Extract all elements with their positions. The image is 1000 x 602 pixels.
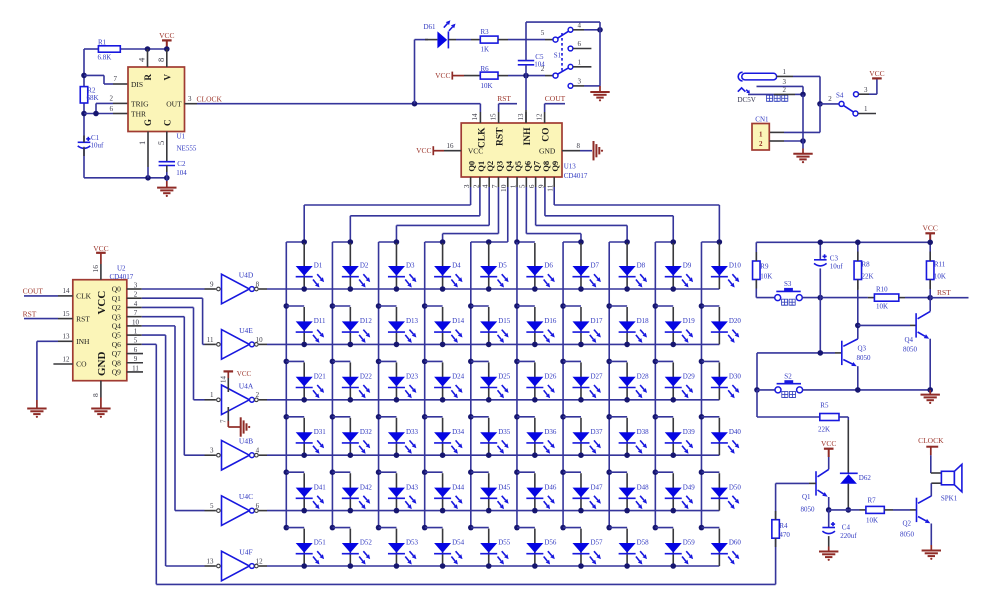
LED D45 — [488, 473, 490, 510]
svg-text:D42: D42 — [360, 483, 373, 491]
inverter U4A — [222, 385, 250, 415]
svg-text:INH: INH — [76, 337, 90, 346]
svg-text:D5: D5 — [498, 262, 507, 270]
svg-text:R11: R11 — [934, 260, 946, 268]
svg-text:D26: D26 — [544, 373, 557, 381]
column 3 bus — [378, 242, 380, 528]
svg-text:D51: D51 — [314, 539, 327, 547]
U2 pin13 INH wire to ground — [58, 340, 73, 342]
LED D38 — [626, 418, 628, 455]
node RST junction — [927, 295, 933, 301]
svg-text:9: 9 — [210, 280, 214, 288]
svg-text:S3: S3 — [784, 280, 792, 288]
LED D54 — [442, 529, 444, 566]
LED D57 — [580, 529, 582, 566]
svg-text:D60: D60 — [729, 539, 742, 547]
svg-text:U2: U2 — [117, 264, 126, 272]
svg-text:S1: S1 — [554, 52, 562, 60]
wire U13 Q8 to column 9 — [544, 187, 546, 216]
LED D34 — [442, 418, 444, 455]
svg-text:U4B: U4B — [239, 437, 253, 446]
wire S3 to C3 node — [802, 297, 820, 299]
svg-text:CO: CO — [542, 128, 552, 142]
svg-text:D43: D43 — [406, 483, 419, 491]
jack pin 3 wire — [757, 85, 804, 87]
LED D24 — [442, 362, 444, 399]
svg-text:TRIG: TRIG — [131, 99, 149, 108]
svg-text:16: 16 — [447, 142, 455, 150]
svg-text:8: 8 — [156, 58, 166, 62]
column 2 bracket top — [332, 241, 350, 243]
svg-text:S4: S4 — [836, 92, 844, 100]
svg-text:D6: D6 — [544, 262, 553, 270]
LED D35 — [488, 418, 490, 455]
svg-text:1: 1 — [783, 68, 787, 76]
LED D53 — [395, 529, 397, 566]
svg-text:VCC: VCC — [159, 31, 174, 40]
svg-text:D32: D32 — [360, 428, 373, 436]
svg-text:G: G — [143, 119, 153, 126]
column 8 bus — [608, 242, 610, 528]
svg-text:D41: D41 — [314, 483, 327, 491]
U4A ground pin 7 — [227, 407, 229, 421]
node pin1 junction — [145, 175, 151, 181]
svg-text:D2: D2 — [360, 262, 369, 270]
svg-text:VCC: VCC — [821, 439, 836, 448]
row 4 wire — [267, 454, 719, 456]
node D62 junction — [846, 507, 852, 513]
LED D19 — [672, 307, 674, 344]
wire S1 top bus — [526, 21, 600, 23]
svg-text:2: 2 — [759, 140, 763, 148]
inverter U4C — [222, 496, 250, 526]
transistor Q3 8050 — [757, 352, 835, 354]
pin 5 stub — [166, 132, 168, 162]
svg-text:5: 5 — [134, 337, 138, 345]
row 2 wire — [267, 343, 719, 345]
inverter U4F — [222, 551, 250, 581]
resistor R8 — [857, 242, 859, 261]
node S3/C3 junction — [818, 295, 824, 301]
svg-text:10K: 10K — [866, 517, 878, 525]
svg-text:D61: D61 — [424, 23, 437, 31]
svg-text:D15: D15 — [498, 317, 511, 325]
node pin5/C2 junction — [164, 175, 170, 181]
column 4 bus — [424, 242, 426, 528]
svg-text:D34: D34 — [452, 428, 465, 436]
svg-text:D28: D28 — [637, 373, 650, 381]
svg-text:C3: C3 — [830, 254, 839, 262]
LED D51 — [303, 529, 305, 566]
svg-text:D7: D7 — [590, 262, 599, 270]
svg-text:SPK1: SPK1 — [941, 494, 958, 502]
svg-text:8: 8 — [577, 142, 581, 150]
svg-text:D16: D16 — [544, 317, 557, 325]
node column 5 top — [486, 239, 492, 245]
net label RST (right) — [930, 297, 968, 299]
LED D27 — [580, 362, 582, 399]
wire C3 node down to Q3 base — [819, 298, 821, 353]
resistor R1 — [84, 48, 98, 50]
column 1 bracket top — [286, 241, 304, 243]
LED D46 — [534, 473, 536, 510]
svg-text:13: 13 — [517, 113, 525, 121]
column 9 bus — [654, 242, 656, 528]
svg-text:R1: R1 — [98, 39, 107, 47]
LED D26 — [534, 362, 536, 399]
svg-text:COUT: COUT — [545, 94, 566, 103]
transistor Q2 8050 — [916, 498, 918, 522]
svg-text:2: 2 — [541, 65, 545, 73]
wire left rail x=84 — [83, 49, 85, 142]
svg-text:10K: 10K — [760, 272, 772, 280]
node S2 left junction — [754, 387, 760, 393]
svg-text:VCC: VCC — [416, 146, 431, 155]
U4A power pin 14 VCC — [227, 378, 229, 392]
svg-text:D49: D49 — [683, 483, 696, 491]
LED D6 — [534, 243, 536, 289]
pin 4 stub — [147, 49, 149, 67]
svg-text:22K: 22K — [818, 426, 830, 434]
svg-text:R7: R7 — [868, 496, 877, 504]
svg-text:1: 1 — [210, 391, 214, 399]
svg-text:CLK: CLK — [478, 127, 488, 148]
svg-text:7: 7 — [219, 419, 227, 423]
node Q1 emitter junction — [826, 507, 832, 513]
svg-text:10: 10 — [256, 336, 264, 344]
ground (U2 pin8) — [91, 408, 110, 410]
svg-text:D48: D48 — [637, 483, 650, 491]
svg-text:1: 1 — [578, 58, 582, 66]
svg-text:15: 15 — [63, 310, 71, 318]
capacitor C5 — [518, 60, 534, 62]
LED D11 — [303, 307, 305, 344]
LED D8 — [626, 243, 628, 289]
node Q3 collector junction — [855, 323, 861, 329]
svg-text:R8: R8 — [862, 260, 871, 268]
svg-text:3: 3 — [210, 447, 214, 455]
svg-text:D25: D25 — [498, 373, 511, 381]
LED D13 — [395, 307, 397, 344]
wire Q3 collector to Q4 base — [858, 324, 910, 326]
svg-text:D21: D21 — [314, 373, 327, 381]
wire R4 to bottom net — [775, 538, 777, 584]
ground (U13 pin8, rotated) — [593, 141, 595, 160]
svg-text:1: 1 — [759, 131, 763, 139]
svg-text:1: 1 — [137, 141, 147, 145]
svg-text:D1: D1 — [314, 262, 323, 270]
wire Q5 to U4F — [142, 334, 166, 336]
CN1 pin2 wire — [769, 140, 784, 142]
LED D44 — [442, 473, 444, 510]
svg-text:RST: RST — [496, 127, 506, 146]
svg-text:DC5V: DC5V — [738, 96, 756, 104]
ground (U2 INH) — [27, 408, 46, 410]
LED D15 — [488, 307, 490, 344]
svg-text:9: 9 — [536, 184, 545, 188]
svg-text:Q4: Q4 — [112, 321, 121, 330]
svg-text:D31: D31 — [314, 428, 327, 436]
svg-text:4: 4 — [137, 57, 147, 62]
svg-text:Q9: Q9 — [112, 368, 121, 377]
wire CLOCK to speaker top — [930, 455, 932, 473]
svg-text:D11: D11 — [314, 317, 326, 325]
pushbutton S3 — [756, 297, 774, 299]
inverter U4E — [222, 330, 250, 360]
svg-text:Q4: Q4 — [905, 336, 914, 344]
counter U2 CD4017 — [73, 280, 127, 381]
U2 pin12 CO stub — [53, 363, 72, 365]
wire VCC top bus (right) — [756, 241, 930, 243]
svg-text:6: 6 — [110, 105, 114, 113]
svg-text:4: 4 — [481, 184, 490, 188]
svg-text:104: 104 — [176, 169, 187, 177]
svg-text:D57: D57 — [590, 539, 603, 547]
wire Q0 to U4D — [142, 288, 205, 290]
svg-text:D45: D45 — [498, 483, 511, 491]
svg-text:D30: D30 — [729, 373, 742, 381]
LED D52 — [349, 529, 351, 566]
diode D62 — [840, 472, 858, 474]
capacitor C2 — [159, 161, 175, 163]
jack pin 1 wire — [777, 75, 793, 77]
column 7 bus — [562, 242, 564, 528]
label power-jack (CJK) — [767, 95, 773, 101]
column 1 bus — [285, 242, 287, 528]
resistor R10 — [868, 297, 875, 299]
svg-text:14: 14 — [471, 113, 479, 121]
inverter U4D — [222, 274, 250, 304]
resistor R5 — [757, 416, 820, 418]
wire Q2 collector to speaker — [930, 483, 932, 496]
svg-text:Q6: Q6 — [112, 340, 121, 349]
ground (CN1) — [793, 153, 812, 155]
svg-text:8050: 8050 — [903, 345, 918, 353]
svg-text:U1: U1 — [177, 133, 186, 141]
node Q3 base junction — [818, 350, 824, 356]
wire Q6 to bottom net — [142, 343, 157, 345]
svg-text:5: 5 — [210, 502, 214, 510]
svg-text:RST: RST — [497, 94, 511, 103]
svg-text:S2: S2 — [784, 372, 792, 380]
svg-text:CLK: CLK — [76, 292, 92, 301]
svg-text:VCC: VCC — [922, 224, 937, 233]
wire Q3 base left rail — [756, 353, 758, 390]
svg-text:10uf: 10uf — [830, 263, 844, 271]
wire U13 Q2 to column 3 — [488, 187, 490, 225]
svg-text:D37: D37 — [590, 428, 603, 436]
LED D55 — [488, 529, 490, 566]
wire D62 to Q1 emitter node — [847, 484, 849, 510]
node VCC bus / R8 junction — [855, 240, 861, 246]
svg-text:U4F: U4F — [239, 548, 252, 557]
LED D43 — [395, 473, 397, 510]
svg-text:3: 3 — [462, 184, 471, 188]
LED D32 — [349, 418, 351, 455]
pin 1 stub — [147, 132, 149, 168]
svg-text:6: 6 — [134, 346, 138, 354]
svg-text:RST: RST — [76, 314, 90, 323]
ground (Q4) — [929, 390, 931, 395]
node column 9 top — [670, 239, 676, 245]
wire U13 Q3 to column 4 — [497, 187, 499, 234]
inverter U4B — [222, 440, 250, 470]
LED D28 — [626, 362, 628, 399]
wire U13 Q4 to column 5 — [507, 187, 509, 242]
svg-text:11: 11 — [207, 336, 214, 344]
wire R3 to S1 pin5 — [498, 39, 508, 41]
pin 2 TRIG stub and jog — [113, 102, 128, 104]
svg-text:10: 10 — [499, 184, 508, 192]
U13 pin14 CLK stub — [479, 112, 481, 123]
counter U13 CD4017 — [461, 123, 562, 177]
svg-text:D40: D40 — [729, 428, 742, 436]
node D61 branch junction — [412, 101, 418, 107]
U13 pin15 RST stub and net label RST — [498, 112, 500, 123]
column 3 bracket top — [379, 241, 397, 243]
wire Q1 to U4E — [142, 297, 203, 299]
svg-text:2: 2 — [471, 184, 480, 188]
wire S2 rail down to R5 — [756, 390, 758, 417]
svg-text:R6: R6 — [481, 65, 490, 73]
svg-text:3: 3 — [578, 78, 582, 86]
svg-text:68K: 68K — [87, 94, 99, 102]
svg-text:R5: R5 — [820, 401, 829, 409]
pin 7 DIS stub — [113, 83, 128, 85]
svg-text:C: C — [162, 120, 172, 127]
svg-text:D53: D53 — [406, 539, 419, 547]
LED D42 — [349, 473, 351, 510]
S4 pin 3 wire to VCC — [859, 93, 870, 95]
svg-text:D9: D9 — [683, 262, 692, 270]
wire Q1 base — [776, 482, 809, 484]
svg-text:U4E: U4E — [239, 326, 253, 335]
LED D14 — [442, 307, 444, 344]
wire U1 bottom rail — [84, 177, 167, 179]
wire U13 Q9 to column 10 — [553, 187, 555, 205]
LED D21 — [303, 362, 305, 399]
svg-text:COUT: COUT — [23, 287, 44, 296]
node jack pin2 junction — [800, 92, 806, 98]
svg-text:D18: D18 — [637, 317, 650, 325]
wire Q3 to U4B — [142, 316, 185, 318]
chip U1 NE555 body — [128, 67, 185, 132]
LED D59 — [672, 529, 674, 566]
svg-text:1: 1 — [508, 184, 517, 188]
svg-text:D22: D22 — [360, 373, 373, 381]
ground (C4) — [819, 551, 838, 553]
LED D31 — [303, 418, 305, 455]
node column 4 top — [440, 239, 446, 245]
resistor R6 — [464, 75, 480, 77]
svg-text:Q3: Q3 — [112, 312, 121, 321]
svg-text:D10: D10 — [729, 262, 742, 270]
svg-text:D4: D4 — [452, 262, 461, 270]
LED D39 — [672, 418, 674, 455]
svg-text:14: 14 — [219, 376, 227, 384]
svg-text:10K: 10K — [876, 303, 888, 311]
svg-text:Q1: Q1 — [802, 493, 811, 501]
svg-text:D20: D20 — [729, 317, 742, 325]
svg-text:4: 4 — [134, 300, 138, 308]
svg-text:D39: D39 — [683, 428, 696, 436]
svg-text:D46: D46 — [544, 483, 557, 491]
wire jack to CN1 pin1 — [819, 104, 821, 132]
speaker SPK1 — [941, 471, 954, 485]
svg-text:VCC: VCC — [96, 291, 108, 315]
wire Q2 emitter to ground — [930, 524, 932, 546]
pin 8 stub — [166, 49, 168, 67]
svg-text:4: 4 — [578, 21, 582, 29]
svg-text:THR: THR — [131, 110, 146, 119]
svg-text:D52: D52 — [360, 539, 373, 547]
LED D36 — [534, 418, 536, 455]
svg-text:11: 11 — [546, 184, 555, 191]
wire R8 to Q3 collector — [857, 280, 859, 287]
svg-text:CN1: CN1 — [755, 116, 769, 124]
svg-text:2: 2 — [828, 95, 832, 103]
wire sleeve to ground — [802, 94, 804, 148]
svg-text:INH: INH — [523, 127, 533, 146]
wire Q1 collector — [828, 457, 830, 469]
LED D40 — [718, 418, 720, 455]
svg-text:8: 8 — [256, 280, 260, 288]
svg-text:R3: R3 — [481, 28, 490, 36]
node VCC bus / R11 junction — [927, 240, 933, 246]
node DIS junction — [81, 73, 87, 79]
svg-text:R4: R4 — [779, 522, 788, 530]
wire CLOCK net to U13 CLK — [197, 103, 480, 105]
row 3 wire — [267, 399, 719, 401]
resistor R4 — [772, 520, 780, 539]
svg-text:1K: 1K — [481, 46, 490, 54]
LED D56 — [534, 529, 536, 566]
svg-text:5: 5 — [156, 141, 166, 145]
resistor R9 — [755, 242, 757, 261]
svg-text:D44: D44 — [452, 483, 465, 491]
svg-text:C4: C4 — [842, 524, 851, 532]
svg-text:CD4017: CD4017 — [564, 172, 588, 180]
transistor Q1 8050 — [815, 471, 817, 495]
wire R5 to D62 — [839, 416, 848, 418]
svg-text:7: 7 — [114, 75, 118, 83]
svg-text:D36: D36 — [544, 428, 557, 436]
DC jack barrel — [742, 73, 777, 80]
column 6 bus — [516, 242, 518, 528]
svg-text:D3: D3 — [406, 262, 415, 270]
svg-text:220uf: 220uf — [840, 532, 857, 540]
svg-text:D8: D8 — [637, 262, 646, 270]
svg-text:NE555: NE555 — [177, 144, 197, 152]
svg-text:Q9: Q9 — [550, 161, 560, 172]
svg-text:CD4017: CD4017 — [110, 273, 134, 281]
LED D20 — [718, 307, 720, 344]
connector CN1 — [752, 124, 769, 151]
wire U13 Q1 to column 2 — [479, 187, 481, 216]
pushbutton S2 — [757, 389, 775, 391]
LED D7 — [580, 243, 582, 289]
wire C2 to ground — [166, 166, 168, 173]
svg-text:8050: 8050 — [801, 506, 816, 514]
svg-text:V: V — [162, 74, 172, 81]
LED D9 — [672, 243, 674, 289]
LED D37 — [580, 418, 582, 455]
wire DIS jog — [84, 74, 104, 76]
svg-text:CLOCK: CLOCK — [197, 94, 223, 103]
resistor R3 — [471, 39, 480, 41]
row 6 wire — [267, 565, 719, 567]
svg-text:U4A: U4A — [239, 381, 254, 390]
